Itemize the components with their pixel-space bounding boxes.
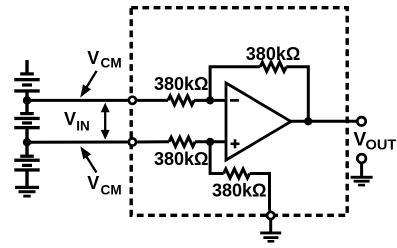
svg-text:OUT: OUT <box>366 137 397 153</box>
svg-text:CM: CM <box>101 183 122 198</box>
svg-text:380kΩ: 380kΩ <box>246 44 300 64</box>
svg-text:CM: CM <box>101 56 122 71</box>
svg-text:380kΩ: 380kΩ <box>212 180 266 200</box>
svg-text:380kΩ: 380kΩ <box>154 74 208 94</box>
svg-text:380kΩ: 380kΩ <box>154 149 208 169</box>
svg-text:V: V <box>64 109 76 129</box>
svg-text:V: V <box>87 48 99 68</box>
svg-text:IN: IN <box>76 118 90 133</box>
svg-text:V: V <box>87 173 99 193</box>
